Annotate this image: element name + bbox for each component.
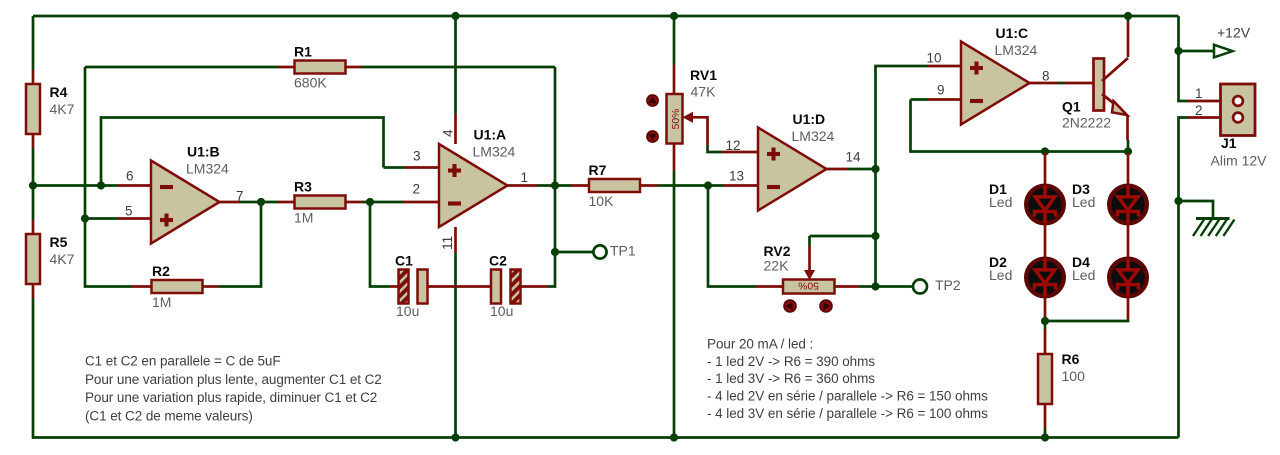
svg-text:Led: Led <box>1072 194 1095 210</box>
svg-text:C1: C1 <box>395 253 413 269</box>
svg-text:7: 7 <box>236 188 244 203</box>
svg-text:10u: 10u <box>490 303 513 319</box>
svg-text:9: 9 <box>937 82 945 97</box>
svg-text:- 1 led 3V -> R6 = 360 ohms: - 1 led 3V -> R6 = 360 ohms <box>707 371 875 386</box>
svg-text:R3: R3 <box>294 179 312 195</box>
svg-text:4K7: 4K7 <box>50 101 75 117</box>
svg-text:LM324: LM324 <box>792 128 835 144</box>
svg-text:R7: R7 <box>589 162 607 178</box>
svg-text:Led: Led <box>1072 267 1095 283</box>
svg-text:Alim 12V: Alim 12V <box>1211 153 1268 169</box>
svg-text:J1: J1 <box>1221 135 1237 151</box>
svg-text:C1 et C2 en parallele = C de 5: C1 et C2 en parallele = C de 5uF <box>85 353 281 368</box>
svg-text:13: 13 <box>729 168 744 183</box>
svg-text:Pour une variation plus rapide: Pour une variation plus rapide, diminuer… <box>85 390 377 405</box>
svg-text:LM324: LM324 <box>995 42 1038 58</box>
svg-text:R4: R4 <box>50 84 68 100</box>
svg-text:U1:D: U1:D <box>793 111 826 127</box>
svg-text:1M: 1M <box>294 210 313 226</box>
svg-text:50%: 50% <box>671 109 682 130</box>
svg-text:U1:A: U1:A <box>474 127 507 143</box>
svg-text:- 4 led 3V en série / parallel: - 4 led 3V en série / parallele -> R6 = … <box>707 406 988 421</box>
svg-text:TP2: TP2 <box>935 277 961 293</box>
svg-text:47K: 47K <box>691 84 717 100</box>
svg-text:RV1: RV1 <box>690 67 717 83</box>
svg-text:2N2222: 2N2222 <box>1062 115 1111 131</box>
svg-text:R2: R2 <box>152 263 170 279</box>
svg-text:R1: R1 <box>294 44 312 60</box>
svg-text:Pour 20 mA / led :: Pour 20 mA / led : <box>707 336 813 351</box>
svg-text:1: 1 <box>521 170 529 185</box>
svg-text:680K: 680K <box>294 75 327 91</box>
svg-text:1: 1 <box>1195 86 1203 101</box>
svg-text:1M: 1M <box>152 294 171 310</box>
svg-text:100: 100 <box>1062 368 1086 384</box>
svg-text:3: 3 <box>413 148 421 163</box>
svg-text:4K7: 4K7 <box>50 251 75 267</box>
svg-text:10K: 10K <box>589 193 615 209</box>
svg-text:Led: Led <box>989 194 1012 210</box>
svg-text:2: 2 <box>413 181 421 196</box>
svg-text:LM324: LM324 <box>186 161 229 177</box>
svg-text:Led: Led <box>989 267 1012 283</box>
svg-text:U1:B: U1:B <box>187 144 220 160</box>
svg-text:R5: R5 <box>50 234 68 250</box>
svg-text:10u: 10u <box>396 303 419 319</box>
svg-text:10: 10 <box>927 50 942 65</box>
svg-text:Pour une variation plus lente,: Pour une variation plus lente, augmenter… <box>85 372 382 387</box>
svg-text:12: 12 <box>726 138 741 153</box>
svg-text:TP1: TP1 <box>610 242 636 258</box>
svg-text:- 1 led 2V -> R6 = 390 ohms: - 1 led 2V -> R6 = 390 ohms <box>707 354 875 369</box>
svg-text:- 4 led 2V en série / parallel: - 4 led 2V en série / parallele -> R6 = … <box>707 389 988 404</box>
svg-text:4: 4 <box>441 129 456 137</box>
svg-text:22K: 22K <box>764 258 790 274</box>
svg-text:6: 6 <box>126 168 134 183</box>
svg-text:8: 8 <box>1042 68 1050 83</box>
svg-text:14: 14 <box>846 149 862 164</box>
svg-text:C2: C2 <box>489 253 507 269</box>
svg-text:R6: R6 <box>1062 351 1080 367</box>
svg-text:U1:C: U1:C <box>996 25 1029 41</box>
svg-text:+12V: +12V <box>1217 25 1251 41</box>
svg-text:2: 2 <box>1195 103 1203 118</box>
svg-text:50%: 50% <box>798 279 819 290</box>
svg-text:11: 11 <box>440 236 455 250</box>
svg-text:(C1 et C2 de meme valeurs): (C1 et C2 de meme valeurs) <box>85 409 253 424</box>
svg-text:Q1: Q1 <box>1062 99 1081 115</box>
svg-text:5: 5 <box>125 203 133 218</box>
svg-text:LM324: LM324 <box>473 144 516 160</box>
